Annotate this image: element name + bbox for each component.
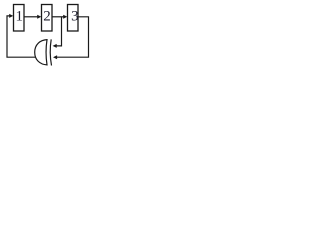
- wire box3 output loop to lower gate input: [57, 17, 89, 57]
- wire tap junction to upper gate input: [56, 17, 62, 46]
- register stage box 2: [42, 5, 53, 32]
- svg-text:1: 1: [15, 9, 23, 25]
- arrowhead into box 1: [9, 14, 13, 18]
- arrowhead lower gate input: [53, 55, 57, 59]
- wire box1 to box2: [24, 16, 38, 18]
- xor gate body: [35, 40, 47, 65]
- wire feedback: gate output left to input of box 1: [7, 16, 36, 57]
- svg-text:3: 3: [71, 9, 79, 25]
- register stage box 1: [14, 5, 25, 32]
- register stage box 3: [68, 5, 79, 32]
- arrowhead upper gate input: [53, 44, 57, 48]
- wire box2 to box3: [52, 16, 64, 18]
- xor gate extra input arc: [50, 39, 51, 65]
- svg-text:2: 2: [43, 9, 51, 25]
- arrowhead into box 2: [37, 15, 41, 19]
- arrowhead into box 3: [63, 15, 67, 19]
